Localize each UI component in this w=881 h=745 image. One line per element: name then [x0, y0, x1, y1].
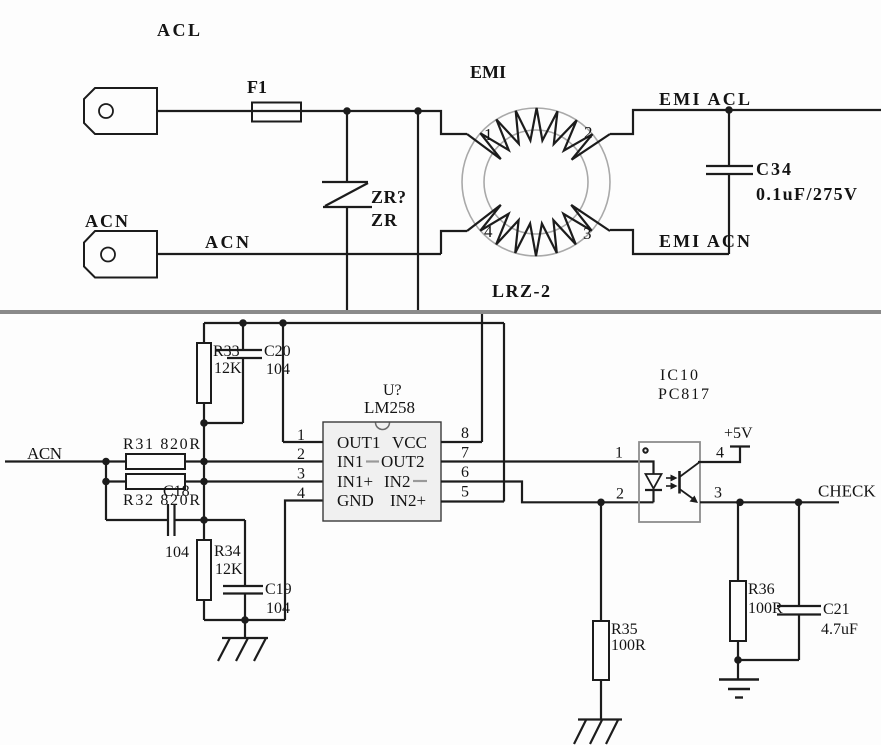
svg-text:12K: 12K: [214, 360, 242, 377]
svg-text:7: 7: [461, 445, 469, 462]
svg-text:C18: C18: [163, 483, 190, 500]
svg-text:F1: F1: [247, 77, 267, 97]
svg-text:PC817: PC817: [658, 386, 709, 403]
svg-text:2: 2: [616, 486, 624, 503]
svg-text:ACL: ACL: [157, 20, 200, 40]
svg-text:LM258: LM258: [364, 398, 415, 417]
svg-text:LRZ-2: LRZ-2: [492, 281, 550, 301]
svg-text:R36: R36: [748, 581, 775, 598]
svg-text:4.7uF: 4.7uF: [821, 621, 858, 638]
svg-text:3: 3: [297, 466, 305, 483]
svg-text:C34: C34: [756, 159, 791, 179]
svg-text:8: 8: [461, 425, 469, 442]
svg-text:ACN: ACN: [27, 444, 62, 463]
svg-text:4: 4: [484, 222, 493, 241]
svg-text:1: 1: [484, 125, 493, 144]
svg-text:3: 3: [583, 224, 592, 243]
svg-text:R34: R34: [214, 543, 241, 560]
svg-text:CHECK: CHECK: [818, 482, 876, 501]
svg-text:R31 820R: R31 820R: [123, 436, 200, 453]
svg-text:VCC: VCC: [392, 433, 427, 452]
svg-text:104: 104: [266, 600, 290, 617]
svg-text:OUT1: OUT1: [337, 433, 380, 452]
svg-text:IN2: IN2: [384, 472, 410, 491]
svg-text:4: 4: [716, 445, 724, 462]
svg-text:C19: C19: [265, 581, 292, 598]
svg-text:2: 2: [584, 123, 593, 142]
svg-text:IN2+: IN2+: [390, 491, 426, 510]
svg-text:2: 2: [297, 446, 305, 463]
svg-text:100R: 100R: [611, 637, 646, 654]
svg-text:1: 1: [615, 445, 623, 462]
svg-text:GND: GND: [337, 491, 374, 510]
svg-text:ZR: ZR: [371, 210, 398, 230]
svg-text:R35: R35: [611, 621, 638, 638]
svg-text:4: 4: [297, 485, 305, 502]
svg-text:104: 104: [165, 544, 189, 561]
svg-text:IN1+: IN1+: [337, 472, 373, 491]
svg-text:ACN: ACN: [85, 211, 128, 231]
svg-text:ZR?: ZR?: [371, 187, 406, 207]
svg-text:U?: U?: [383, 382, 402, 399]
svg-text:C20: C20: [264, 343, 291, 360]
svg-text:12K: 12K: [215, 561, 243, 578]
svg-text:5: 5: [461, 484, 469, 501]
svg-text:6: 6: [461, 464, 469, 481]
svg-text:IN1: IN1: [337, 452, 363, 471]
svg-text:EMI: EMI: [470, 62, 506, 82]
svg-text:OUT2: OUT2: [381, 452, 424, 471]
svg-text:104: 104: [266, 361, 290, 378]
svg-text:C21: C21: [823, 601, 850, 618]
svg-text:+5V: +5V: [724, 425, 753, 442]
svg-text:ACN: ACN: [205, 232, 249, 252]
svg-text:3: 3: [714, 485, 722, 502]
svg-text:EMI ACN: EMI ACN: [659, 231, 750, 251]
